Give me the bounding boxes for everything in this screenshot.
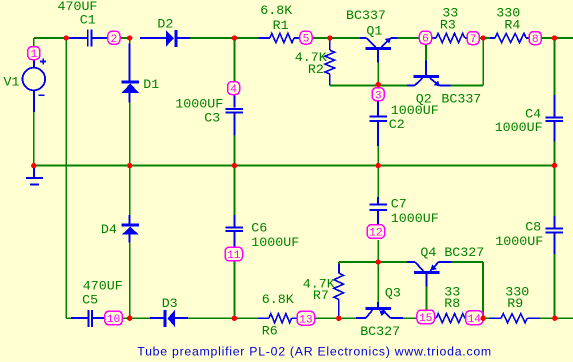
svg-text:C7: C7 [391,196,407,211]
capacitor C7 [370,197,388,225]
junction mid rail x378 [376,163,381,168]
junction node3 row [376,82,381,87]
svg-text:Q4 BC327: Q4 BC327 [420,245,484,260]
svg-text:R9: R9 [507,296,523,311]
wire Q1 emitter to node6 [397,37,420,39]
svg-text:R4: R4 [504,17,520,32]
wire corner x483 up to top rail [482,38,484,86]
diode D2 [140,30,190,47]
svg-text:D1: D1 [143,77,159,92]
wire Q1 base to node3 junction [377,63,379,85]
node 10 [105,311,123,325]
capacitor C8 [546,216,564,254]
capacitor C1 [66,30,108,47]
node 1 [28,47,40,60]
capacitor C2 [370,101,388,146]
svg-text:R7: R7 [313,288,329,303]
wire C3 column: junction to node4 [233,38,235,82]
svg-text:1000UF: 1000UF [495,120,543,135]
svg-text:R6: R6 [262,323,278,338]
junction top rail x130 [127,35,132,40]
svg-text:2: 2 [111,34,118,46]
junction top rail x234 [232,35,237,40]
resistor R8 [435,314,467,323]
junction bottom rail R7 [336,316,341,321]
wire node13 to R7 junction [315,317,339,319]
wire C8 junction to right edge [555,317,573,319]
svg-text:D4: D4 [101,222,117,237]
junction mid rail x554 [552,163,557,168]
capacitor C6 [226,215,244,247]
node 4 [228,82,240,95]
junction mid rail x130 [127,163,132,168]
node 6 [419,31,431,44]
wire Q4 base green segment [426,287,428,310]
wire V1 bottom to mid rail [33,112,35,166]
svg-text:Tube preamplifier PL-02 (AR El: Tube preamplifier PL-02 (AR Electronics)… [137,345,492,359]
node 13 [297,311,315,325]
svg-text:1000UF: 1000UF [495,234,543,249]
node 11 [225,247,243,261]
wire Q4 emitter to corner x483 [452,261,483,263]
junction bottom rail x554 [552,316,557,321]
capacitor C3 [226,95,244,136]
junction bottom rail x130 [127,316,132,321]
wire left vertical V1 column top [33,38,35,47]
junction top rail x554 [552,35,557,40]
wire junction to D3 [130,317,150,319]
transistor Q3 BC327 [356,302,403,318]
wire node11 to bottom rail [233,261,235,318]
svg-text:1000UF: 1000UF [391,103,439,118]
wire C3 to mid rail [233,136,235,166]
wire C4 column top [554,38,556,95]
wire mid rail to C8 [554,166,556,216]
junction top rail R2 [327,35,332,40]
svg-text:5: 5 [303,34,310,46]
svg-text:15: 15 [419,313,432,325]
node 12 [367,225,385,239]
svg-text:8: 8 [532,34,539,46]
wire bottom rail C5 corner [66,317,71,319]
wire node7 to junction [479,37,483,39]
resistor R3 [432,33,467,42]
svg-text:1000UF: 1000UF [251,235,299,250]
wire junction to R6 [235,317,259,319]
svg-text:R2: R2 [308,62,324,77]
svg-text:BC337: BC337 [441,91,481,106]
wire R9 to C8 junction [540,317,555,319]
junction top rail x483 [481,35,486,40]
svg-text:11: 11 [227,250,241,262]
wire mid rail to C6 [233,166,235,215]
ground [26,166,43,185]
capacitor C4 [546,95,564,142]
wire C2 to mid rail [377,146,379,166]
wire top rail left segment [34,37,66,39]
junction bottom rail x234 [232,316,237,321]
wire x66 vertical top-to-bottom rail [65,38,67,318]
diode D1 [121,44,139,103]
node 8 [529,32,541,45]
junction row262 [376,259,381,264]
wire D2 to junction4 [188,37,234,39]
svg-text:BC337: BC337 [346,8,386,23]
resistor R2 [325,40,335,86]
svg-text:1: 1 [30,49,37,61]
wire R7 corner down [338,262,340,264]
svg-text:6: 6 [422,34,429,46]
wire node6 to Q2 base [425,44,427,60]
svg-text:R3: R3 [440,17,456,32]
svg-text:470UF: 470UF [83,278,123,293]
svg-text:R8: R8 [444,296,460,311]
svg-text:4: 4 [230,84,237,96]
wire node5 to R2 top [312,37,330,39]
svg-text:12: 12 [369,228,382,240]
resistor R6 [258,314,297,323]
svg-text:3: 3 [375,90,382,102]
diode D3 [150,310,188,327]
wire corner x483 down to node14 junction [482,262,484,318]
wire C4 to mid rail [554,142,556,166]
wire mid rail [34,165,555,167]
wire row-262: R7 corner to Q4 collector [339,261,407,263]
transistor Q4 BC327 [407,262,452,287]
voltage source V1 [23,59,47,112]
svg-text:C8: C8 [525,219,541,234]
svg-text:14: 14 [468,314,482,326]
junction bottom rail x483 [481,316,486,321]
wire node2 to junction [120,37,131,39]
junction mid rail x234 [232,163,237,168]
node 15 [417,310,435,324]
junction mid rail ground [31,163,36,168]
wire mid rail to D4 [129,166,131,215]
svg-text:7: 7 [470,34,477,46]
svg-text:D3: D3 [162,296,178,311]
wire junction to R4 [483,37,490,39]
capacitor C5 [71,310,105,327]
svg-text:10: 10 [107,314,121,326]
wire R7 junction to Q3 collector [339,317,356,319]
svg-text:13: 13 [299,314,312,326]
node 2 [108,31,120,44]
resistor R1 [258,33,300,42]
wire Q3 emitter to node15 [403,317,417,319]
wire Q2 emitter to corner x483 [450,85,483,87]
svg-text:BC327: BC327 [360,324,400,339]
resistor R7 [334,264,344,318]
wire node14 junction to R9 [483,317,489,319]
wire C8 to bottom rail junction [554,254,556,318]
svg-text:C6: C6 [251,220,267,235]
wire D3 to junction [188,317,235,319]
svg-text:Q3: Q3 [385,285,401,300]
wire Q3 base green segment [377,262,379,302]
wire D1 to mid rail [129,103,131,166]
svg-text:C1: C1 [80,12,96,27]
wire R2 top to Q1 collector [330,37,360,39]
wire node8 to right edge [541,37,573,39]
svg-text:6.8K: 6.8K [260,3,292,18]
junction top rail x66 [63,35,68,40]
wire junction4 to R1 [234,37,258,39]
svg-text:C3: C3 [204,110,220,125]
svg-text:Q1: Q1 [366,23,382,38]
wire D4 to bottom rail [129,242,131,318]
transistor Q2 BC337 [407,61,450,87]
wire mid rail to C7 [377,166,379,197]
resistor R9 [489,314,540,323]
wire node3 row rail [330,85,407,87]
resistor R4 [490,33,529,42]
svg-text:1000UF: 1000UF [391,211,439,226]
node 3 [372,88,384,101]
transistor Q1 BC337 [360,38,397,63]
svg-text:6.8K: 6.8K [262,292,294,307]
svg-text:R1: R1 [273,18,289,33]
node 14 [466,311,484,325]
svg-text:V1: V1 [4,75,20,90]
wire node10 to junction [122,317,131,319]
svg-text:C5: C5 [82,292,98,307]
svg-text:1000UF: 1000UF [175,96,223,111]
wire D1 column: junction to D1 [129,38,131,46]
node 5 [300,31,312,44]
wire node12 to row-262 junction [377,240,379,262]
node 7 [467,32,479,45]
diode D4 [121,215,139,242]
svg-text:C2: C2 [389,117,405,132]
svg-text:D2: D2 [157,16,173,31]
